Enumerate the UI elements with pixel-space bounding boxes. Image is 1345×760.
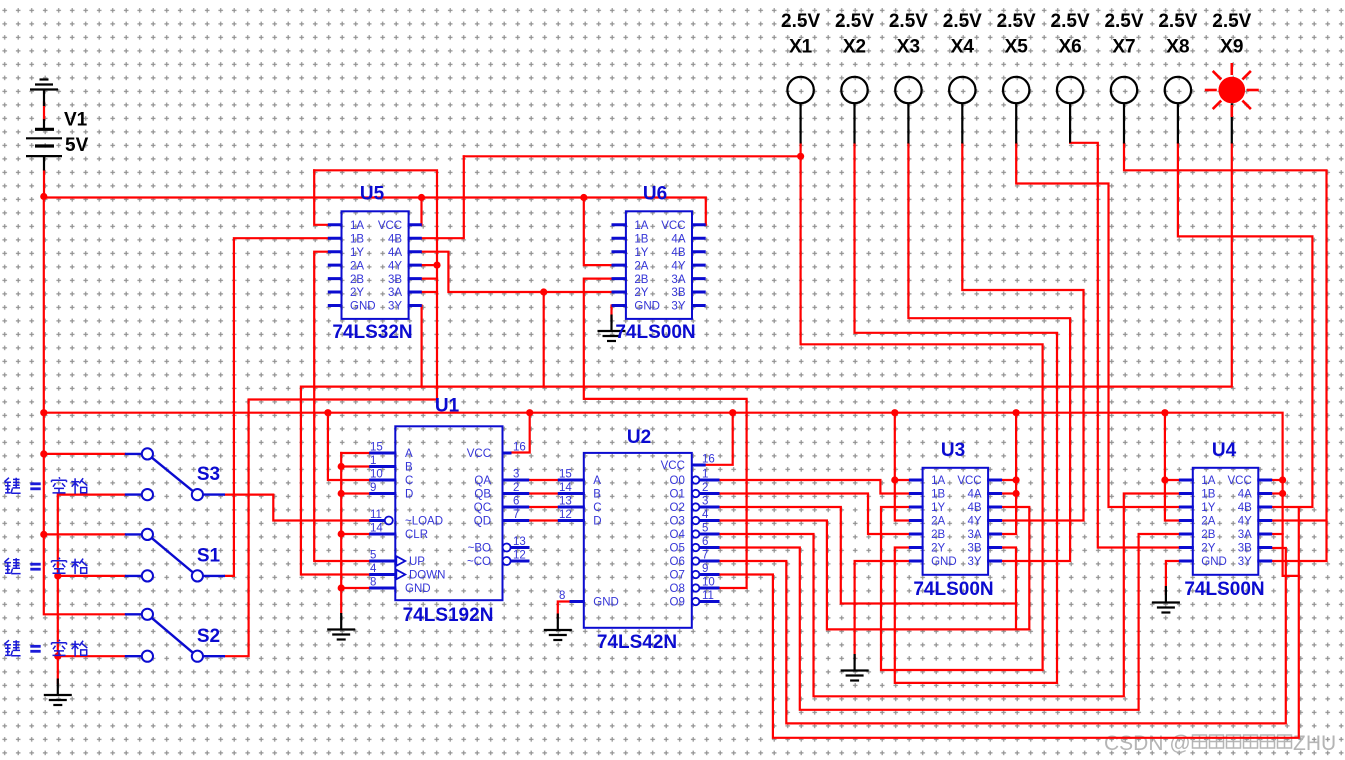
svg-text:4B: 4B [671, 247, 685, 259]
svg-text:2.5V: 2.5V [835, 11, 874, 32]
svg-text:QC: QC [474, 502, 491, 514]
svg-text:1Y: 1Y [350, 247, 364, 259]
svg-text:2Y: 2Y [931, 543, 945, 555]
svg-text:6: 6 [702, 536, 708, 548]
svg-text:S3: S3 [197, 464, 220, 485]
svg-text:U6: U6 [643, 184, 667, 205]
svg-text:2B: 2B [931, 529, 945, 541]
svg-text:VCC: VCC [378, 220, 402, 232]
svg-text:3B: 3B [671, 287, 685, 299]
svg-text:2B: 2B [350, 274, 364, 286]
svg-text:2Y: 2Y [350, 287, 364, 299]
svg-text:~BO: ~BO [468, 543, 491, 555]
svg-text:4Y: 4Y [388, 260, 402, 272]
svg-text:2B: 2B [1201, 529, 1215, 541]
svg-text:~CO: ~CO [467, 556, 491, 568]
svg-text:9: 9 [702, 563, 708, 575]
svg-text:1B: 1B [350, 233, 364, 245]
svg-text:2.5V: 2.5V [889, 11, 928, 32]
svg-text:3: 3 [513, 469, 519, 481]
svg-text:7: 7 [702, 550, 708, 562]
svg-text:3A: 3A [388, 287, 402, 299]
svg-text:A: A [593, 475, 601, 487]
svg-text:1A: 1A [350, 220, 364, 232]
svg-text:O1: O1 [670, 489, 685, 501]
svg-text:74LS42N: 74LS42N [597, 632, 677, 653]
svg-text:U3: U3 [941, 440, 965, 461]
svg-text:2.5V: 2.5V [1212, 11, 1251, 32]
svg-text:O8: O8 [670, 583, 685, 595]
svg-text:4B: 4B [388, 233, 402, 245]
svg-text:2.5V: 2.5V [781, 11, 820, 32]
svg-text:3: 3 [702, 496, 708, 508]
svg-text:B: B [593, 489, 601, 501]
svg-text:QA: QA [474, 475, 491, 487]
svg-text:2.5V: 2.5V [943, 11, 982, 32]
svg-text:3B: 3B [388, 274, 402, 286]
svg-text:11: 11 [370, 509, 382, 521]
svg-text:13: 13 [559, 496, 572, 508]
svg-text:15: 15 [370, 442, 383, 454]
svg-text:2.5V: 2.5V [1158, 11, 1197, 32]
svg-text:O9: O9 [670, 597, 685, 609]
svg-text:3A: 3A [968, 529, 982, 541]
svg-text:4A: 4A [1238, 489, 1252, 501]
svg-text:X9: X9 [1220, 37, 1243, 58]
svg-text:1Y: 1Y [931, 502, 945, 514]
svg-text:C: C [405, 475, 413, 487]
svg-text:3A: 3A [671, 274, 685, 286]
svg-text:6: 6 [513, 496, 519, 508]
svg-text:O5: O5 [670, 543, 685, 555]
svg-text:1B: 1B [931, 489, 945, 501]
svg-text:UP: UP [409, 556, 425, 568]
svg-text:4A: 4A [968, 489, 982, 501]
svg-text:8: 8 [559, 590, 565, 602]
svg-text:O7: O7 [670, 570, 685, 582]
svg-text:O0: O0 [670, 475, 685, 487]
svg-text:X8: X8 [1166, 37, 1189, 58]
svg-text:3Y: 3Y [671, 301, 685, 313]
svg-text:A: A [405, 448, 413, 460]
svg-text:1A: 1A [1201, 475, 1215, 487]
svg-text:~LOAD: ~LOAD [405, 516, 443, 528]
svg-text:12: 12 [513, 550, 526, 562]
svg-text:74LS192N: 74LS192N [403, 605, 494, 626]
svg-text:12: 12 [559, 509, 572, 521]
svg-text:C: C [593, 502, 601, 514]
svg-text:16: 16 [702, 454, 715, 466]
svg-text:74LS00N: 74LS00N [615, 322, 695, 343]
svg-text:U2: U2 [627, 427, 651, 448]
svg-text:GND: GND [634, 301, 660, 313]
svg-text:S1: S1 [197, 546, 221, 567]
svg-text:S2: S2 [197, 626, 220, 647]
svg-text:VCC: VCC [957, 475, 981, 487]
svg-text:O4: O4 [670, 529, 686, 541]
svg-text:O2: O2 [670, 502, 685, 514]
svg-text:GND: GND [1201, 556, 1227, 568]
svg-text:CSDN @: CSDN @ [1104, 732, 1191, 755]
svg-text:7: 7 [513, 509, 519, 521]
svg-text:2.5V: 2.5V [1104, 11, 1143, 32]
svg-text:O6: O6 [670, 556, 685, 568]
svg-text:GND: GND [350, 301, 376, 313]
svg-text:VCC: VCC [661, 460, 685, 472]
svg-text:4: 4 [702, 509, 709, 521]
svg-text:1A: 1A [634, 220, 648, 232]
svg-text:2.5V: 2.5V [1051, 11, 1090, 32]
svg-text:2.5V: 2.5V [997, 11, 1036, 32]
svg-text:3Y: 3Y [1238, 556, 1252, 568]
svg-text:4B: 4B [1238, 502, 1252, 514]
svg-text:3B: 3B [1238, 543, 1252, 555]
svg-text:CLR: CLR [405, 529, 428, 541]
svg-text:4Y: 4Y [671, 260, 685, 272]
svg-text:QD: QD [474, 516, 491, 528]
svg-text:1: 1 [370, 455, 376, 467]
svg-text:2A: 2A [634, 260, 648, 272]
svg-text:VCC: VCC [467, 448, 491, 460]
svg-text:1Y: 1Y [634, 247, 648, 259]
svg-text:13: 13 [513, 536, 526, 548]
svg-text:1A: 1A [931, 475, 945, 487]
svg-text:X5: X5 [1005, 37, 1029, 58]
svg-text:X2: X2 [843, 37, 866, 58]
svg-text:2A: 2A [350, 260, 364, 272]
svg-text:4B: 4B [968, 502, 982, 514]
svg-text:X1: X1 [789, 37, 813, 58]
svg-text:14: 14 [370, 523, 383, 535]
svg-text:74LS00N: 74LS00N [1184, 579, 1264, 600]
svg-text:3B: 3B [968, 543, 982, 555]
svg-text:U5: U5 [360, 184, 385, 205]
svg-text:10: 10 [702, 577, 715, 589]
svg-text:3Y: 3Y [388, 301, 402, 313]
svg-text:16: 16 [513, 442, 526, 454]
svg-text:4A: 4A [388, 247, 402, 259]
svg-text:VCC: VCC [1228, 475, 1252, 487]
svg-text:2: 2 [702, 482, 708, 494]
svg-text:U4: U4 [1212, 440, 1237, 461]
svg-text:X3: X3 [897, 37, 920, 58]
svg-text:3Y: 3Y [968, 556, 982, 568]
svg-text:1Y: 1Y [1201, 502, 1215, 514]
svg-text:3A: 3A [1238, 529, 1252, 541]
svg-text:GND: GND [931, 556, 957, 568]
svg-text:VCC: VCC [661, 220, 685, 232]
svg-text:2: 2 [513, 482, 519, 494]
svg-text:X4: X4 [951, 37, 975, 58]
svg-text:4A: 4A [671, 233, 685, 245]
svg-text:14: 14 [559, 482, 572, 494]
svg-text:4Y: 4Y [968, 516, 982, 528]
svg-text:2B: 2B [634, 274, 648, 286]
svg-text:U1: U1 [435, 396, 460, 417]
svg-text:2Y: 2Y [634, 287, 648, 299]
svg-text:D: D [405, 489, 413, 501]
svg-text:1B: 1B [634, 233, 648, 245]
svg-text:2A: 2A [931, 516, 945, 528]
svg-text:2A: 2A [1201, 516, 1215, 528]
svg-text:1B: 1B [1201, 489, 1215, 501]
svg-text:QB: QB [474, 489, 491, 501]
svg-text:11: 11 [702, 590, 714, 602]
svg-text:V1: V1 [64, 110, 88, 131]
svg-text:9: 9 [370, 482, 376, 494]
svg-text:X7: X7 [1112, 37, 1135, 58]
svg-text:5V: 5V [65, 135, 89, 156]
svg-text:8: 8 [370, 577, 376, 589]
svg-text:74LS32N: 74LS32N [332, 322, 412, 343]
svg-text:4Y: 4Y [1238, 516, 1252, 528]
svg-text:GND: GND [593, 597, 619, 609]
svg-text:2Y: 2Y [1201, 543, 1215, 555]
svg-text:X6: X6 [1058, 37, 1081, 58]
svg-text:B: B [405, 462, 413, 474]
svg-text:DOWN: DOWN [409, 570, 445, 582]
svg-text:1: 1 [702, 469, 708, 481]
svg-text:O3: O3 [670, 516, 685, 528]
svg-text:GND: GND [405, 583, 431, 595]
svg-text:74LS00N: 74LS00N [913, 579, 993, 600]
svg-text:15: 15 [559, 469, 572, 481]
svg-text:5: 5 [370, 550, 376, 562]
svg-text:D: D [593, 516, 601, 528]
svg-text:10: 10 [370, 469, 383, 481]
svg-text:5: 5 [702, 523, 708, 535]
svg-text:4: 4 [370, 563, 377, 575]
